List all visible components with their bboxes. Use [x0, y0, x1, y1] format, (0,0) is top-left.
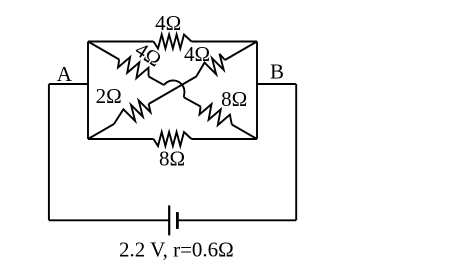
wire: diagonal BL start [88, 124, 114, 139]
battery cell: long plate (+) [168, 205, 170, 235]
svg-text:4Ω: 4Ω [155, 11, 181, 35]
svg-text:2Ω: 2Ω [96, 84, 122, 108]
wire: diagonal TR end [225, 42, 257, 61]
wire: bottom edge left segment [88, 138, 154, 140]
svg-text:2.2 V, r=0.6Ω: 2.2 V, r=0.6Ω [119, 238, 234, 262]
svg-text:B: B [270, 60, 284, 84]
battery cell: short plate (-) [176, 212, 179, 229]
wire: diagonal from resistor to hop [149, 77, 164, 86]
wire: bottom edge right segment [192, 138, 258, 140]
wire: top edge left segment [88, 41, 154, 43]
wire: diagonal TL start [88, 42, 119, 60]
resistor 4ohm zigzag upper-right on BL-TR diagonal [196, 54, 225, 77]
wire hop over crossing [164, 80, 184, 97]
svg-text:4Ω: 4Ω [131, 37, 166, 71]
wire: diagonal from hop to resistor [184, 97, 201, 106]
wire: bottom outer left segment [49, 219, 169, 221]
resistor R_top 4ohm zigzag [154, 35, 192, 49]
wire: diagonal BR end [232, 125, 257, 140]
wire: right outer vertical [295, 84, 297, 220]
node B terminal wire [257, 83, 296, 85]
node A terminal wire [49, 83, 88, 85]
svg-text:4Ω: 4Ω [184, 42, 210, 66]
wire: right edge of bridge box [256, 42, 258, 140]
resistor R_bottom 8ohm zigzag [154, 132, 192, 146]
wire: top edge right segment [192, 41, 258, 43]
wire: left edge of bridge box [87, 42, 89, 140]
wire: bottom outer right segment [177, 219, 296, 221]
svg-text:8Ω: 8Ω [159, 147, 185, 171]
resistor 4ohm zigzag upper-left on TL-BR diagonal [118, 57, 149, 78]
wire: diagonal middle through crossing [149, 77, 197, 105]
wire: left outer vertical [48, 84, 50, 220]
resistor 8ohm zigzag lower-right on TL-BR diagonal [200, 104, 232, 125]
svg-text:A: A [57, 62, 73, 86]
svg-text:8Ω: 8Ω [221, 87, 247, 111]
resistor 2ohm zigzag on BL-TR diagonal [114, 101, 151, 125]
